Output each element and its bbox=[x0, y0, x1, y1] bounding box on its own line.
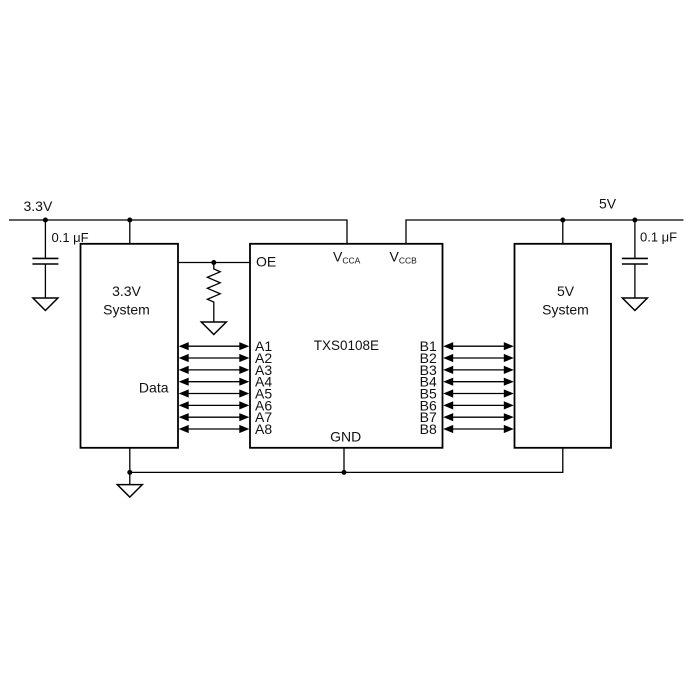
wire: U1 GND pin to GND rail bbox=[343, 448, 345, 473]
net: 5V rail with drop to VCCB pin bbox=[406, 220, 684, 244]
svg-text:TXS0108E: TXS0108E bbox=[314, 338, 379, 353]
svg-text:A8: A8 bbox=[255, 421, 272, 437]
wire: data line B6 (bidirectional arrow) bbox=[443, 401, 514, 409]
wire: data line A7 (bidirectional arrow) bbox=[179, 413, 250, 421]
svg-text:OE: OE bbox=[256, 254, 276, 270]
resistor R1 (pull-down on OE) bbox=[207, 263, 220, 323]
junction: 3.3V rail / C1 bbox=[43, 218, 48, 223]
wire: data line A4 (bidirectional arrow) bbox=[179, 378, 250, 386]
junction: GND rail / U1 GND pin bbox=[342, 470, 347, 475]
junction: 5V rail / C2 bbox=[632, 218, 637, 223]
wire: OE net (3.3V System to OE pin) bbox=[178, 262, 250, 264]
wire: data line B4 (bidirectional arrow) bbox=[443, 378, 514, 386]
junction: GND rail / ground symbol bbox=[127, 470, 132, 475]
svg-text:0.1 μF: 0.1 μF bbox=[640, 230, 677, 245]
svg-text:GND: GND bbox=[330, 428, 361, 444]
ground: main bbox=[117, 485, 142, 498]
wire: data line A8 (bidirectional arrow) bbox=[179, 425, 250, 433]
svg-text:Data: Data bbox=[139, 379, 169, 395]
svg-text:System: System bbox=[103, 301, 150, 317]
IC U1: TXS0108E bbox=[250, 244, 443, 448]
capacitor C2 (0.1 uF bypass, 5V side) bbox=[622, 220, 648, 298]
wire: data line A1 (bidirectional arrow) bbox=[179, 342, 250, 350]
svg-text:0.1 μF: 0.1 μF bbox=[52, 230, 89, 245]
svg-text:3.3V: 3.3V bbox=[24, 198, 53, 214]
block: 5V System bbox=[515, 244, 612, 448]
wire: data line B5 (bidirectional arrow) bbox=[443, 389, 514, 397]
wire: data line A6 (bidirectional arrow) bbox=[179, 401, 250, 409]
junction: 5V rail / 5V system supply bbox=[560, 218, 565, 223]
junction: OE net / R1 bbox=[211, 260, 216, 265]
wire: data line B3 (bidirectional arrow) bbox=[443, 366, 514, 374]
wire: 3.3V rail to 3.3V System supply pin bbox=[129, 220, 131, 244]
wire: data line B1 (bidirectional arrow) bbox=[443, 342, 514, 350]
block: 3.3V System bbox=[81, 244, 179, 448]
wire: 5V rail to 5V System supply pin bbox=[562, 220, 564, 244]
wire: data line B7 (bidirectional arrow) bbox=[443, 413, 514, 421]
capacitor C1 (0.1 uF bypass, 3.3V side) bbox=[32, 220, 58, 298]
wire: GND rail to ground symbol bbox=[129, 472, 131, 484]
ground: C1 bbox=[33, 298, 58, 311]
ground: C2 bbox=[622, 298, 647, 311]
net: GND rail (left box to right box) bbox=[130, 448, 563, 473]
svg-text:5V: 5V bbox=[599, 196, 617, 212]
wire: data line A3 (bidirectional arrow) bbox=[179, 366, 250, 374]
svg-text:3.3V: 3.3V bbox=[112, 283, 141, 299]
svg-text:B8: B8 bbox=[420, 421, 437, 437]
wire: data line A2 (bidirectional arrow) bbox=[179, 354, 250, 362]
svg-text:5V: 5V bbox=[557, 283, 575, 299]
svg-text:System: System bbox=[542, 302, 589, 318]
junction: 3.3V rail / 3.3V system supply bbox=[127, 218, 132, 223]
wire: data line B8 (bidirectional arrow) bbox=[443, 425, 514, 433]
net: 3.3V rail with drop to VCCA pin bbox=[9, 220, 347, 244]
wire: data line B2 (bidirectional arrow) bbox=[443, 354, 514, 362]
wire: data line A5 (bidirectional arrow) bbox=[179, 389, 250, 397]
ground: R1 bbox=[201, 322, 226, 335]
